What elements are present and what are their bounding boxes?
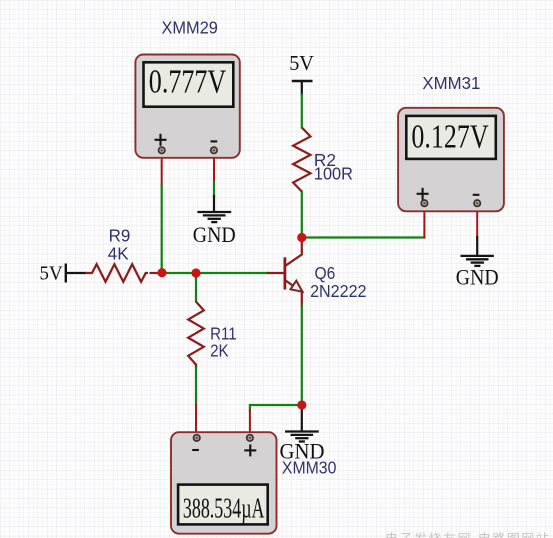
svg-text:2K: 2K xyxy=(210,340,229,360)
svg-text:GND: GND xyxy=(456,265,499,290)
svg-text:5V: 5V xyxy=(40,263,64,285)
svg-text:XMM31: XMM31 xyxy=(422,73,480,93)
svg-text:0.777V: 0.777V xyxy=(149,63,227,100)
svg-text:4K: 4K xyxy=(108,244,129,264)
svg-text:GND: GND xyxy=(193,222,236,247)
svg-text:XMM30: XMM30 xyxy=(282,457,337,477)
svg-text:388.534µA: 388.534µA xyxy=(183,494,265,525)
svg-text:电子发烧友网·电路图网站: 电子发烧友网·电路图网站 xyxy=(385,532,550,538)
svg-text:100R: 100R xyxy=(314,164,353,184)
svg-text:0.127V: 0.127V xyxy=(411,119,489,156)
svg-text:XMM29: XMM29 xyxy=(162,17,218,37)
svg-text:5V: 5V xyxy=(289,51,314,75)
svg-text:2N2222: 2N2222 xyxy=(310,281,366,301)
